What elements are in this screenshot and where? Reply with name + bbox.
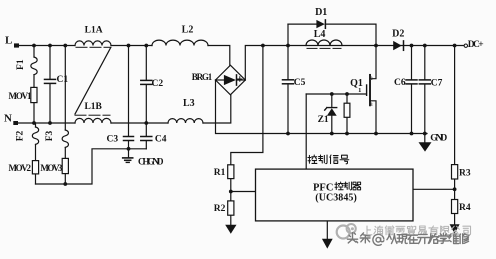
svg-text:R4: R4: [459, 203, 471, 213]
svg-text:L4: L4: [314, 29, 326, 40]
svg-text:3: 3: [370, 102, 373, 108]
svg-text:C2: C2: [152, 79, 164, 89]
svg-text:F3: F3: [45, 130, 55, 141]
svg-text:R2: R2: [214, 204, 226, 214]
svg-text:C5: C5: [294, 78, 306, 88]
svg-text:L1B: L1B: [84, 102, 102, 112]
svg-text:Z1: Z1: [318, 115, 329, 125]
svg-text:L3: L3: [183, 98, 195, 109]
svg-text:C3: C3: [107, 134, 119, 144]
svg-text:R1: R1: [214, 168, 226, 178]
svg-text:D1: D1: [315, 7, 327, 18]
svg-text:GND: GND: [430, 134, 447, 144]
svg-text:R3: R3: [459, 169, 471, 179]
svg-text:MOV3: MOV3: [40, 163, 63, 173]
svg-text:2: 2: [370, 76, 373, 82]
svg-text:N: N: [4, 113, 12, 125]
svg-text:(UC3845): (UC3845): [315, 192, 357, 203]
svg-text:C6: C6: [394, 78, 406, 88]
svg-text:MOV1: MOV1: [9, 91, 33, 101]
svg-text:1: 1: [358, 87, 361, 94]
svg-text:F2: F2: [16, 130, 26, 141]
svg-text:D2: D2: [392, 29, 404, 40]
svg-text:BRG1: BRG1: [192, 72, 213, 82]
svg-text:L1A: L1A: [85, 25, 103, 35]
svg-text:C4: C4: [155, 134, 167, 144]
svg-text:L2: L2: [182, 24, 194, 35]
svg-text:L: L: [5, 35, 12, 47]
svg-text:C7: C7: [431, 79, 443, 89]
svg-text:MOV2: MOV2: [9, 163, 32, 173]
svg-text:F1: F1: [16, 59, 26, 70]
svg-text:CHGND: CHGND: [138, 156, 164, 166]
svg-text:DC+: DC+: [468, 40, 484, 50]
svg-text:C1: C1: [57, 75, 69, 85]
